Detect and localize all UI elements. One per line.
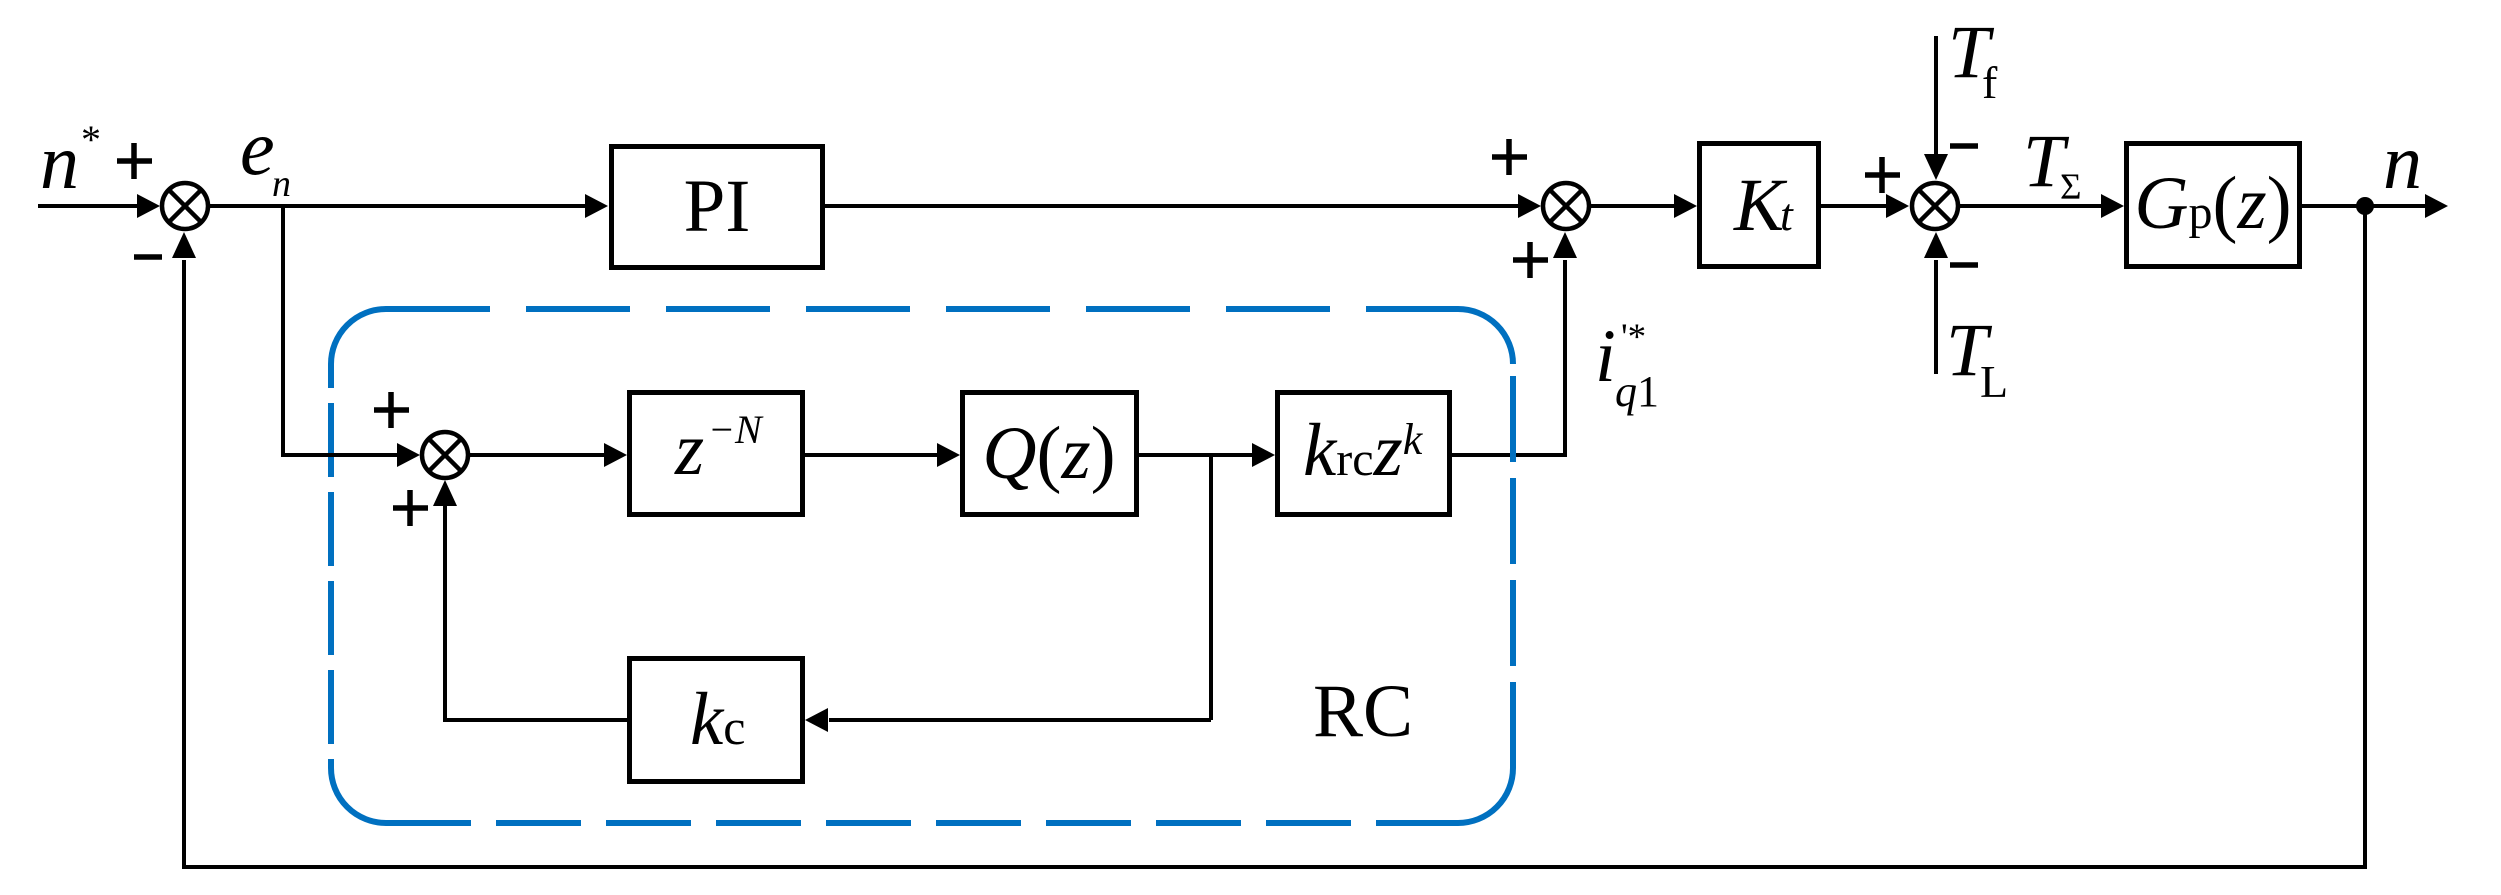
summing junction S3 [1912, 183, 1958, 229]
plus sign upper at S2 [1492, 139, 1527, 175]
wire branch Q(z) output down [1209, 455, 1213, 720]
wire Kt to S3 [1821, 204, 1888, 208]
plus sign lower at S2 [1513, 242, 1548, 278]
svg-text:RC: RC [1313, 670, 1413, 753]
svg-text:krczk: krczk [1303, 409, 1424, 492]
wire to k_c input [829, 718, 1211, 722]
svg-text:PI: PI [684, 165, 751, 248]
svg-text:'*: '* [1621, 317, 1646, 358]
svg-text:L: L [1980, 356, 2008, 407]
wire S4 to z^-N [470, 453, 606, 457]
wire T_f input [1934, 36, 1938, 156]
block krc zk [1278, 393, 1450, 515]
wire S3 to Gp [1960, 204, 2103, 208]
wire krc zk output up to S2 [1452, 260, 1565, 455]
wire input n* [38, 204, 140, 208]
svg-text:f: f [1982, 57, 1998, 108]
block k_c [630, 659, 803, 782]
block Gp(z) [2127, 144, 2300, 267]
summing junction S2 [1543, 183, 1589, 229]
node junction dot [2356, 197, 2374, 215]
plus sign at summing junction S1 [117, 143, 152, 179]
wire Q(z) to krc zk [1139, 453, 1254, 457]
wire feedback left vertical up to S1 [182, 260, 186, 867]
plus sign upper at S4 [374, 392, 409, 428]
svg-text:n: n [2383, 118, 2422, 205]
svg-text:n: n [272, 163, 291, 205]
block Kt [1700, 144, 1819, 267]
svg-text:e: e [240, 104, 275, 191]
wire S2 to Kt [1591, 204, 1676, 208]
svg-text:Q(z): Q(z) [982, 412, 1115, 495]
block z^-N [630, 393, 803, 515]
wire z^-N to Q(z) [805, 453, 939, 457]
wire T_L input [1934, 260, 1938, 374]
wire branch e_n down [281, 206, 285, 457]
summing junction S4 [422, 432, 468, 478]
wire branch to S4 [281, 453, 398, 457]
svg-text:t: t [1780, 189, 1794, 240]
svg-text:Σ: Σ [2060, 167, 2082, 208]
svg-text:Gp(z): Gp(z) [2134, 162, 2291, 245]
plus sign lower at S4 [393, 490, 428, 526]
summing junction S1 [162, 183, 208, 229]
wire PI to S2 [825, 204, 1520, 208]
svg-text:−N: −N [708, 407, 764, 452]
block Q(z) [963, 393, 1137, 515]
block PI [612, 147, 823, 268]
minus sign for T_f [1950, 143, 1978, 149]
minus sign for T_L [1950, 262, 1978, 268]
svg-text:q1: q1 [1615, 367, 1659, 416]
plus sign at S3 [1865, 157, 1900, 193]
wire feedback right vertical [2363, 206, 2367, 865]
svg-text:z: z [674, 408, 704, 491]
svg-text:kc: kc [690, 678, 746, 761]
minus sign at summing junction S1 [134, 254, 162, 260]
wire feedback bottom horizontal [182, 865, 2367, 869]
svg-text:n: n [40, 118, 79, 205]
wire S1 to PI [210, 204, 588, 208]
svg-text:i: i [1595, 315, 1616, 398]
wire k_c output to S4 [445, 504, 627, 720]
RC dashed boundary box [331, 309, 1513, 823]
wire Gp to output n [2302, 204, 2428, 208]
svg-text:*: * [81, 117, 101, 162]
